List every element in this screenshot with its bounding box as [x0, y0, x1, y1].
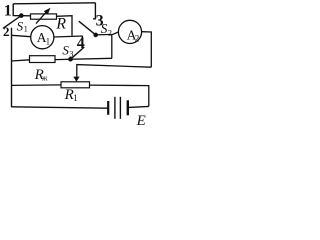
svg-text:S: S [101, 21, 108, 36]
svg-text:3: 3 [69, 49, 73, 59]
wiper arrowhead onto R1 [73, 77, 79, 82]
wire left rail to Rx [12, 60, 30, 61]
node S1 pivot dot [19, 13, 24, 18]
node S3 pivot dot [68, 57, 73, 62]
wire rheostat right end down to A1 row [57, 16, 73, 36]
resistor Rx body [30, 56, 56, 63]
wire branch down from A2 feed to S3 row [111, 34, 113, 58]
wire top rail [13, 3, 95, 4]
wire wiper feed line to potentiometer arrow [77, 65, 152, 78]
op rheostat R body [31, 14, 57, 19]
svg-text:E: E [136, 113, 146, 127]
wire A1 right to contact 4 [54, 36, 83, 37]
svg-text:2: 2 [3, 24, 10, 39]
svg-text:1: 1 [46, 36, 51, 46]
wire top-left stub down to node 1 row [13, 4, 30, 16]
switch S1 open blade [3, 16, 21, 29]
wire bottom rail right section [129, 106, 149, 107]
wire left rail (contact 2 down to bottom rail) [11, 28, 13, 108]
svg-text:1: 1 [73, 93, 78, 103]
wire R1 right end to right edge down to bottom rail [90, 85, 149, 106]
svg-text:ж: ж [41, 74, 48, 83]
svg-text:R: R [55, 15, 66, 32]
battery cell plate long [119, 97, 121, 119]
battery cell plate long [114, 97, 116, 119]
wire S2 node to ammeter A2 [96, 32, 119, 35]
svg-text:1: 1 [4, 2, 12, 19]
svg-text:2: 2 [135, 34, 140, 44]
battery cell plate short [107, 101, 109, 115]
potentiometer R1 body [61, 82, 90, 88]
svg-text:1: 1 [24, 23, 28, 33]
wire A2 right, down right edge to wiper feed [142, 32, 152, 67]
node S2 pivot dot [93, 33, 98, 38]
svg-text:R: R [64, 87, 74, 103]
rheostat arrow [36, 12, 46, 23]
switch S3 open blade [71, 47, 85, 59]
ammeter A1 [31, 26, 54, 49]
svg-text:S: S [17, 19, 24, 34]
contact 4 tick [81, 36, 83, 42]
wire contact 3 stub from top rail [93, 3, 95, 19]
wire Rx to S3 node and on to right branch [55, 58, 112, 59]
battery cell plate short [127, 100, 129, 115]
wire left rail to R1 [12, 84, 62, 87]
switch S2 open blade [79, 21, 96, 35]
wire node2 to ammeter A1 [12, 35, 31, 36]
ammeter A2 [118, 20, 141, 43]
wire bottom rail left section [12, 107, 108, 108]
